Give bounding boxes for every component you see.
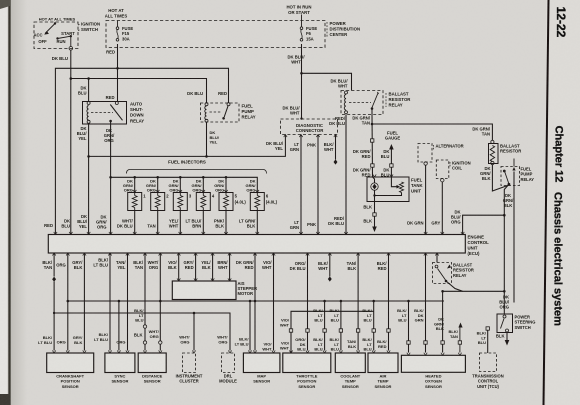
- air temp sensor: [368, 353, 398, 373]
- wire: VIO/ BLK to AIS stepper motor: [178, 253, 180, 281]
- wire: MAP BLK/LT BLU ground: [249, 300, 252, 303]
- wire: YEL/ BLK to AIS stepper motor: [212, 253, 214, 281]
- tank resistor: [400, 182, 404, 193]
- wire: FP relay coil output DK BLU/YEL: [206, 122, 208, 156]
- wire: BLK/LT BLU down to crankshaft sensor: [53, 313, 55, 351]
- junction F6 branch: [300, 72, 303, 75]
- fuel injector 4: [202, 176, 205, 179]
- wire: ORG to crankshaft sensor: [67, 253, 69, 351]
- fuse F6 15A: [300, 27, 303, 30]
- fuel gauge feed arrow: [389, 144, 394, 150]
- wire: FP relay 2 contact line down: [513, 172, 515, 303]
- binding corner smudge top-left: [0, 0, 10, 9]
- wire: injector 6 return to ECU: [256, 211, 258, 235]
- wire: DK GRN/BLK ballast resistor down: [492, 165, 508, 192]
- connector DK GRN/RED: [371, 164, 374, 167]
- fuel injector 1: [133, 176, 136, 179]
- wire: DK GRN/BLK O2 heater feed from relay line: [442, 291, 444, 352]
- wire: injector feed line: [111, 177, 258, 192]
- ground diamond BLK/WHT: [334, 159, 338, 164]
- ignition coil terminal: [441, 179, 444, 182]
- throttle position sensor: [283, 353, 331, 373]
- wire: injector 2 return to ECU: [157, 211, 159, 235]
- book binding edge line: [8, 0, 10, 405]
- label IGNITION COIL: [449, 162, 451, 167]
- tank internal wires: [391, 177, 396, 187]
- junction ASD coil branch: [87, 77, 90, 80]
- power steering switch box: [497, 314, 513, 333]
- FP relay 2 blade: [503, 170, 506, 173]
- wire: ORG/DK BLU to throttle sensor: [307, 253, 309, 351]
- engine control unit (ECU) bus bar: [48, 235, 465, 254]
- wire: DK GRN/TAN from BR relay down to fuel tank unit: [371, 115, 374, 178]
- wire: BLK/WHT stub with ground diamond: [329, 253, 331, 277]
- ballast resistor relay dashed box: [341, 91, 383, 115]
- FP relay switch blade: [227, 103, 230, 106]
- wire: injector 1 return to ECU: [134, 211, 136, 235]
- tank sender motor circle: [373, 177, 375, 183]
- wire: PNK connector pin to ECU: [317, 135, 319, 235]
- wire: WHT/ORG to distance sensor: [159, 300, 162, 303]
- fuel pump relay dashed box: [201, 103, 240, 122]
- wire: DK GRN/BLK FP relay 2 output down: [504, 184, 509, 291]
- sensor ground line: [68, 300, 444, 302]
- binding smudge bottom-left: [0, 394, 10, 405]
- label IGNITION SWITCH: [78, 24, 81, 31]
- wire: air temp ground from line: [372, 300, 375, 303]
- AIS stepper motor box: [172, 281, 236, 300]
- wire: DK BLU/WHT branch to ballast resistor relay: [302, 73, 352, 90]
- BR relay switch blade: [372, 92, 379, 108]
- ignition switch output terminal: [70, 36, 72, 46]
- wire: TAN/YEL to sync sensor: [127, 253, 129, 351]
- wire: BR relay 2 output to power steering line: [446, 281, 504, 291]
- fuel injectors bracket: [127, 170, 267, 174]
- wire: RED/DK BLU BR relay to ECU: [345, 115, 347, 235]
- wire: F6 DK BLU/WHT down to diagnostic connector: [301, 44, 303, 119]
- junction ignition switch feed: [70, 77, 73, 80]
- fuel injector 6: [250, 193, 264, 211]
- binding shadow: [11, 0, 27, 405]
- wire: BLK/LT BLU TCU stub: [486, 327, 489, 330]
- label POWER DISTRIBUTION CENTER: [326, 22, 328, 38]
- wire: BLK power steering ground: [506, 333, 508, 341]
- fuel injector 2: [156, 176, 159, 179]
- wire: TAN/BLK to coolant sensor: [357, 253, 359, 351]
- BR relay coil terminals: [345, 91, 348, 94]
- MAP sensor: [243, 353, 280, 373]
- FP relay link (dashed): [210, 111, 223, 113]
- wire: BLK/TAN to distance sensor: [144, 253, 146, 351]
- fuse F15 30A: [116, 27, 119, 30]
- fuel tank unit box: [367, 177, 409, 202]
- wire: BLK/DK GRN to O2 sensor: [425, 253, 427, 353]
- FP relay coil: [205, 103, 208, 106]
- diagnostic connector pin notches: [284, 135, 287, 138]
- connector DK BLU: [390, 164, 393, 167]
- connector on tank sender wire: [371, 139, 374, 142]
- ASD relay coil: [87, 102, 90, 105]
- wire: GRY/ RED to AIS stepper motor: [195, 253, 197, 281]
- wire: LT GRN connector pin to ECU: [300, 135, 302, 235]
- wire: injector 3 return to ECU: [179, 211, 181, 235]
- auto shutdown relay box: [83, 102, 127, 125]
- wire: DK GRN alternator to ECU: [425, 165, 427, 234]
- wire: GRY/BLK to crankshaft sensor: [83, 253, 85, 351]
- BR relay link: [349, 102, 371, 104]
- coolant temp sensor: [335, 353, 365, 373]
- heated oxygen sensor: [401, 355, 465, 372]
- wire: to power steering switch: [503, 291, 505, 314]
- wire: throttle ground from line: [323, 300, 326, 303]
- ignition coil dashed box: [436, 160, 449, 179]
- wire: DK GRN/RED to MAP sensor: [254, 253, 256, 351]
- wire: DK BLU fuel gauge to tank unit: [390, 150, 392, 178]
- ASD relay switch blade: [115, 102, 118, 105]
- junction RED distribution: [116, 67, 119, 70]
- transmission control unit dashed box: [480, 353, 497, 372]
- FP relay 2 feed stub: [513, 159, 515, 167]
- ballast resistor relay 2 dashed box: [433, 263, 452, 284]
- connector BLK: [373, 213, 376, 216]
- alternator terminal: [424, 162, 427, 165]
- alternator dashed box: [418, 144, 432, 163]
- ground arrow BLK tank: [372, 227, 377, 233]
- wire: VIO/WHT throttle feed from ground line junction: [291, 311, 374, 353]
- power distribution center dashed box: [106, 21, 325, 48]
- wire: DK BLU/YEL collector line to diagnostic connector: [89, 135, 286, 157]
- ASD relay link (dashed): [91, 112, 113, 114]
- wire: BLK tank ground: [374, 196, 376, 227]
- ballast resistor box: [489, 144, 499, 164]
- wire: BLK/LT BLU to sync sensor: [109, 253, 111, 351]
- sidebar divider rule: [544, 0, 549, 405]
- wire: ASD DK BLU/YEL output to bus: [88, 124, 90, 235]
- wire: DK BLU branch to relays (horizontal): [71, 79, 207, 103]
- wire: injector 5 return to ECU: [225, 211, 227, 235]
- wire: BLK/RED to air temp sensor: [388, 253, 390, 351]
- ignition switch contacts: [54, 22, 56, 24]
- crankshaft position sensor: [47, 353, 94, 373]
- distance sensor: [138, 353, 166, 373]
- ECU pin connectors top: [54, 232, 57, 235]
- wire: BLK/TAN O2 stub with arrow: [459, 327, 461, 353]
- wire: sync ground from line: [118, 300, 121, 303]
- wire: coolant ground from line: [340, 300, 343, 303]
- wire: BRN/ WHT to AIS stepper motor: [229, 253, 231, 281]
- diagnostic connector dashed box: [281, 119, 338, 135]
- label ALTERNATOR: [433, 145, 435, 150]
- label BALLAST RESISTOR RELAY: [385, 93, 387, 107]
- fuel pump relay 2 dashed box: [501, 167, 520, 186]
- wire: ASD switch output DK GRN/ORG down to injector feed and bus: [110, 124, 112, 235]
- wire: RED horizontal distribution: [55, 68, 228, 234]
- wire: BLK/TAN stub with splice to sensor return line: [53, 253, 55, 277]
- wire: RED fuse F15 feed down: [117, 44, 119, 101]
- wire: injector 4 return to ECU: [202, 211, 204, 235]
- PS switch blade: [503, 315, 506, 318]
- fuel injector 3: [179, 176, 182, 179]
- wire: VIO/WHT to MAP sensor: [273, 253, 275, 351]
- wire: BR relay 2 feed from ECU: [436, 253, 438, 263]
- fuel injector 5: [225, 176, 228, 179]
- ignition switch dashed box: [34, 22, 78, 49]
- wire: BLK/WHT connector pin to ground: [335, 135, 337, 160]
- wire: DK BLU drop to ASD relay coil: [88, 79, 90, 102]
- ECU pin connectors bottom: [52, 253, 55, 256]
- wire: DK BLU/ORG ECU to power steering line: [463, 215, 505, 234]
- wire: O2 ground from line: [407, 300, 410, 303]
- junction DK GRN/TAN branch: [371, 123, 374, 126]
- wire: ignition switch DK BLU down to junction: [70, 50, 72, 234]
- wire: GRY ignition coil to ECU: [441, 182, 443, 235]
- instrument cluster dashed box: [193, 312, 196, 315]
- sync sensor: [105, 353, 135, 373]
- wire: DK GRN/TAN branch to ballast resistor: [372, 124, 492, 140]
- DRL module dashed box: [228, 350, 231, 353]
- BR relay 2 blade: [435, 265, 438, 268]
